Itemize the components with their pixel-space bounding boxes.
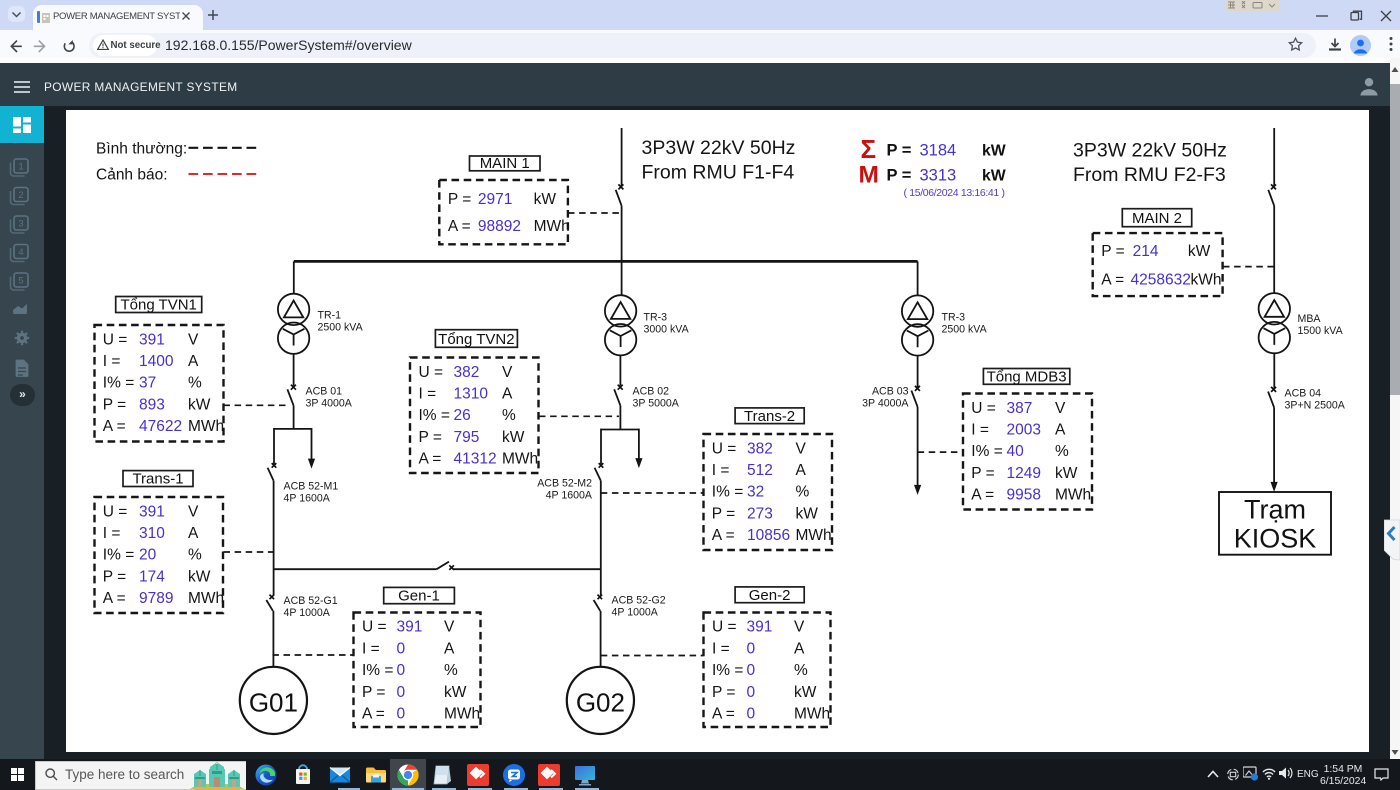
dashed link Gen-1 box bbox=[272, 654, 353, 656]
svg-text:A: A bbox=[794, 640, 805, 657]
svg-text:A: A bbox=[502, 386, 513, 403]
dashed link MAIN 1 box bbox=[568, 212, 622, 214]
svg-text:%: % bbox=[188, 547, 202, 564]
window controls bbox=[1313, 10, 1395, 22]
legend: normal dashed line bbox=[189, 147, 260, 149]
svg-text:V: V bbox=[502, 364, 513, 381]
transformer TR-1 bbox=[278, 294, 309, 354]
svg-text:A =: A = bbox=[103, 590, 126, 607]
search highlight castle bbox=[188, 762, 246, 790]
T1 spare feeder wire bbox=[311, 428, 313, 459]
svg-text:Trans-1: Trans-1 bbox=[132, 471, 183, 488]
svg-text:32: 32 bbox=[747, 484, 764, 501]
svg-text:ACB 52-M2: ACB 52-M2 bbox=[537, 478, 592, 490]
svg-text:391: 391 bbox=[139, 503, 165, 520]
svg-text:MWh: MWh bbox=[188, 590, 224, 607]
svg-text:3P3W 22kV 50Hz: 3P3W 22kV 50Hz bbox=[642, 137, 796, 159]
wire ACB 52-M1 down to gen bus and G01 bbox=[273, 481, 275, 596]
transformer MBA bbox=[1259, 293, 1290, 353]
svg-text:310: 310 bbox=[139, 525, 165, 542]
T1 left branch wire bbox=[273, 428, 275, 464]
svg-text:3P3W 22kV 50Hz: 3P3W 22kV 50Hz bbox=[1073, 140, 1227, 162]
T2 left branch wire bbox=[600, 429, 602, 464]
panel toggle flag bbox=[1384, 519, 1400, 561]
svg-text:U =: U = bbox=[103, 503, 128, 520]
svg-text:A =: A = bbox=[712, 706, 735, 723]
wire TR-3 to ACB 02 bbox=[619, 355, 621, 386]
svg-text:MBA: MBA bbox=[1298, 313, 1322, 325]
svg-text:V: V bbox=[444, 619, 455, 636]
svg-text:MAIN 2: MAIN 2 bbox=[1132, 210, 1182, 227]
label box Tong MDB3 bbox=[983, 369, 1069, 385]
svg-text:A: A bbox=[796, 462, 807, 479]
svg-text:893: 893 bbox=[139, 396, 165, 413]
breaker ACB 52-M2 contact x bbox=[599, 463, 604, 468]
svg-text:0: 0 bbox=[397, 706, 406, 723]
wire TR-3 right to ACB 03 bbox=[917, 355, 919, 387]
svg-text:2003: 2003 bbox=[1007, 422, 1041, 439]
breaker ACB 01 contact x bbox=[291, 385, 296, 390]
meter box Trans-2 bbox=[704, 434, 833, 550]
feeder 2 wire to transformer MBA bbox=[1273, 206, 1275, 293]
svg-text:U =: U = bbox=[712, 619, 737, 636]
breaker ACB 04 contact x bbox=[1271, 387, 1276, 392]
svg-text:I =: I = bbox=[103, 525, 121, 542]
svg-text:U =: U = bbox=[971, 400, 996, 417]
wire TR-1 to ACB 01 bbox=[293, 354, 295, 386]
wire ACB 03 to MDB3 feeder arrow bbox=[917, 407, 919, 486]
label box Tong TVN2 bbox=[435, 330, 517, 348]
svg-text:P =: P = bbox=[1101, 243, 1124, 260]
svg-text:MWh: MWh bbox=[534, 218, 570, 235]
svg-text:I% =: I% = bbox=[712, 484, 743, 501]
svg-text:26: 26 bbox=[454, 407, 471, 424]
wire ACB 52-G2 to G02 bbox=[600, 611, 602, 667]
wire ACB 52-G1 to G01 bbox=[272, 611, 274, 667]
dashed link Trans-2 box bbox=[601, 492, 704, 494]
svg-text:U =: U = bbox=[103, 331, 128, 348]
dashed link TVN1 box bbox=[224, 404, 291, 406]
svg-text:%: % bbox=[444, 662, 458, 679]
svg-text:4258632: 4258632 bbox=[1131, 271, 1191, 288]
svg-text:kW: kW bbox=[982, 143, 1006, 160]
svg-text:V: V bbox=[188, 503, 199, 520]
svg-text:I% =: I% = bbox=[103, 375, 134, 392]
svg-text:TR-3: TR-3 bbox=[644, 311, 668, 323]
T1 spare feeder arrow bbox=[308, 459, 315, 469]
svg-text:A =: A = bbox=[419, 451, 442, 468]
svg-text:MWh: MWh bbox=[796, 527, 832, 544]
feeder 1 wire to bus and transformer TR-3 bbox=[621, 206, 623, 296]
svg-text:I =: I = bbox=[971, 422, 989, 439]
tie switch contact x bbox=[449, 565, 454, 570]
svg-text:ACB 52-G1: ACB 52-G1 bbox=[284, 595, 338, 607]
tie switch blade bbox=[437, 562, 449, 570]
svg-text:G02: G02 bbox=[576, 688, 625, 718]
svg-text:U =: U = bbox=[712, 440, 737, 457]
svg-text:3184: 3184 bbox=[920, 142, 957, 160]
T-split 1 horizontal bbox=[274, 428, 312, 430]
svg-text:From RMU F2-F3: From RMU F2-F3 bbox=[1073, 164, 1226, 186]
svg-text:391: 391 bbox=[139, 331, 165, 348]
svg-text:MAIN 1: MAIN 1 bbox=[480, 155, 530, 172]
svg-text:ACB 03: ACB 03 bbox=[872, 385, 909, 397]
svg-text:A: A bbox=[188, 525, 199, 542]
svg-text:kW: kW bbox=[188, 396, 211, 413]
svg-text:From RMU F1-F4: From RMU F1-F4 bbox=[642, 162, 795, 184]
svg-text:40: 40 bbox=[1007, 443, 1025, 460]
svg-text:391: 391 bbox=[397, 619, 423, 636]
label box Tong TVN1 bbox=[116, 297, 202, 313]
svg-text:5: 5 bbox=[18, 276, 23, 287]
svg-text:387: 387 bbox=[1007, 400, 1033, 417]
svg-text:TR-3: TR-3 bbox=[942, 311, 966, 323]
svg-text:P =: P = bbox=[448, 191, 471, 208]
svg-text:kW: kW bbox=[502, 429, 525, 446]
svg-text:1310: 1310 bbox=[454, 386, 489, 403]
svg-text:Gen-2: Gen-2 bbox=[749, 587, 791, 604]
svg-text:4P 1000A: 4P 1000A bbox=[284, 607, 331, 619]
svg-text:%: % bbox=[796, 484, 810, 501]
capture widget overlay bbox=[1225, 0, 1280, 11]
svg-text:kW: kW bbox=[188, 568, 211, 585]
svg-text:37: 37 bbox=[139, 375, 156, 392]
svg-text:ACB 04: ACB 04 bbox=[1285, 388, 1322, 400]
svg-text:Tổng TVN1: Tổng TVN1 bbox=[120, 297, 196, 314]
svg-text:174: 174 bbox=[139, 568, 165, 585]
svg-text:98892: 98892 bbox=[478, 218, 521, 235]
svg-text:382: 382 bbox=[747, 440, 773, 457]
svg-text:U =: U = bbox=[362, 619, 387, 636]
svg-text:2500 kVA: 2500 kVA bbox=[942, 323, 988, 335]
svg-text:A =: A = bbox=[712, 527, 735, 544]
breaker MAIN 1 blade bbox=[616, 190, 622, 206]
svg-text:Cảnh báo:: Cảnh báo: bbox=[96, 167, 168, 184]
svg-text:TR-1: TR-1 bbox=[318, 310, 342, 322]
svg-text:P =: P = bbox=[103, 396, 126, 413]
svg-text:A =: A = bbox=[971, 487, 994, 504]
svg-text:P =: P = bbox=[419, 429, 442, 446]
svg-text:214: 214 bbox=[1133, 243, 1159, 260]
dashed link Trans-1 box bbox=[224, 551, 274, 553]
dashed link MDB3 box bbox=[918, 451, 963, 453]
svg-text:A =: A = bbox=[103, 418, 126, 435]
T2 spare feeder wire bbox=[638, 429, 640, 459]
label box MAIN 1 bbox=[470, 156, 541, 171]
breaker ACB 52-G2 blade bbox=[594, 600, 601, 611]
transformer TR-3 right (2500 kVA) bbox=[902, 295, 933, 355]
svg-text:A =: A = bbox=[362, 706, 385, 723]
MDB3 feeder arrow bbox=[914, 485, 921, 495]
breaker ACB 03 contact x bbox=[915, 386, 920, 391]
svg-text:512: 512 bbox=[747, 462, 773, 479]
KIOSK feeder arrow bbox=[1271, 482, 1278, 492]
sidebar menu icons bbox=[0, 143, 44, 433]
label box MAIN 2 bbox=[1122, 209, 1191, 227]
label box Gen-1 bbox=[384, 587, 455, 603]
svg-text:0: 0 bbox=[397, 684, 406, 701]
svg-text:V: V bbox=[794, 619, 805, 636]
svg-text:Trans-2: Trans-2 bbox=[744, 408, 795, 425]
breaker ACB 04 blade bbox=[1268, 392, 1274, 408]
svg-text:KIOSK: KIOSK bbox=[1234, 524, 1317, 554]
breaker ACB 02 contact x bbox=[618, 385, 623, 390]
label box Trans-2 bbox=[735, 408, 804, 424]
meter box Gen-2 bbox=[704, 613, 831, 728]
svg-text:P =: P = bbox=[362, 684, 385, 701]
svg-text:I% =: I% = bbox=[103, 547, 134, 564]
breaker ACB 52-G1 contact x bbox=[270, 595, 275, 600]
svg-text:P =: P = bbox=[712, 505, 735, 522]
svg-text:1249: 1249 bbox=[1007, 465, 1041, 482]
breaker ACB 52-M1 blade bbox=[268, 468, 274, 481]
svg-text:M: M bbox=[859, 162, 879, 189]
breaker ACB 52-G2 contact x bbox=[598, 595, 603, 600]
svg-text:0: 0 bbox=[747, 662, 756, 679]
breaker ACB 52-M2 blade bbox=[595, 468, 601, 481]
breaker MAIN 2 blade bbox=[1268, 190, 1274, 206]
tray bbox=[1206, 769, 1220, 779]
T-split 2 horizontal bbox=[601, 429, 639, 431]
incoming feeder 2 wire (top) bbox=[1273, 128, 1275, 186]
svg-text:391: 391 bbox=[747, 619, 773, 636]
label box Gen-2 bbox=[735, 587, 804, 603]
svg-text:U =: U = bbox=[419, 364, 444, 381]
svg-text:A: A bbox=[444, 640, 455, 657]
svg-text:P =: P = bbox=[971, 465, 994, 482]
svg-text:V: V bbox=[188, 331, 199, 348]
wire bus to TR-3 right bbox=[917, 261, 919, 296]
generator tie bus left segment bbox=[274, 568, 437, 570]
svg-text:I% =: I% = bbox=[712, 662, 743, 679]
svg-text:kW: kW bbox=[1188, 243, 1211, 260]
svg-text:1: 1 bbox=[18, 162, 23, 173]
svg-text:A =: A = bbox=[1101, 271, 1124, 288]
svg-text:kW: kW bbox=[1055, 465, 1078, 482]
svg-text:I =: I = bbox=[419, 386, 437, 403]
dashed link Gen-2 box bbox=[601, 655, 704, 657]
svg-text:P =: P = bbox=[887, 167, 912, 185]
svg-text:273: 273 bbox=[747, 505, 773, 522]
meter box Gen-1 bbox=[354, 613, 481, 728]
scrollbar bbox=[1390, 58, 1400, 758]
svg-text:0: 0 bbox=[747, 706, 756, 723]
svg-text:0: 0 bbox=[397, 662, 406, 679]
Tram KIOSK box bbox=[1219, 492, 1331, 555]
svg-text:382: 382 bbox=[454, 364, 480, 381]
meter box MAIN 2 bbox=[1093, 233, 1223, 296]
svg-text:3P 5000A: 3P 5000A bbox=[633, 398, 680, 410]
svg-text:I =: I = bbox=[712, 640, 730, 657]
wire ACB 04 to Tram KIOSK bbox=[1273, 407, 1275, 482]
svg-text:MWh: MWh bbox=[1055, 487, 1091, 504]
dashed link MAIN 2 box bbox=[1223, 266, 1274, 268]
legend: warning dashed line (red) bbox=[189, 173, 260, 175]
svg-text:Gen-1: Gen-1 bbox=[398, 588, 440, 605]
svg-text:G01: G01 bbox=[249, 688, 298, 718]
wire ACB 01 to T-split bbox=[293, 406, 295, 429]
svg-text:%: % bbox=[188, 375, 202, 392]
svg-text:Bình thường:: Bình thường: bbox=[96, 141, 187, 158]
svg-text:795: 795 bbox=[454, 429, 480, 446]
svg-text:3P 4000A: 3P 4000A bbox=[862, 397, 909, 409]
wire ACB 52-M2 down to gen bus and G02 bbox=[600, 481, 602, 596]
svg-text:ACB 52-M1: ACB 52-M1 bbox=[284, 481, 339, 493]
svg-text:4P 1000A: 4P 1000A bbox=[612, 607, 659, 619]
svg-text:Tổng TVN2: Tổng TVN2 bbox=[438, 331, 514, 348]
breaker ACB 03 blade bbox=[911, 391, 917, 407]
svg-text:1500 kVA: 1500 kVA bbox=[1298, 325, 1344, 337]
dashed link TVN2 box bbox=[539, 415, 619, 417]
svg-text:kW: kW bbox=[534, 191, 557, 208]
incoming feeder 1 wire (top) bbox=[621, 128, 623, 186]
svg-text:kW: kW bbox=[444, 684, 467, 701]
svg-text:ACB 02: ACB 02 bbox=[633, 386, 670, 398]
svg-text:3P+N 2500A: 3P+N 2500A bbox=[1285, 400, 1346, 412]
svg-text:2: 2 bbox=[18, 190, 23, 201]
wire ACB 02 to T-split 2 bbox=[619, 406, 621, 430]
svg-text:10856: 10856 bbox=[747, 527, 790, 544]
svg-text:2971: 2971 bbox=[478, 191, 512, 208]
meter box MAIN 1 bbox=[439, 180, 568, 244]
svg-text:41312: 41312 bbox=[454, 451, 497, 468]
svg-text:P =: P = bbox=[887, 142, 912, 160]
svg-text:0: 0 bbox=[747, 684, 756, 701]
svg-text:P =: P = bbox=[712, 684, 735, 701]
svg-text:V: V bbox=[1055, 400, 1066, 417]
svg-text:3313: 3313 bbox=[920, 167, 957, 185]
svg-text:20: 20 bbox=[139, 547, 157, 564]
svg-text:Trạm: Trạm bbox=[1244, 495, 1306, 525]
transformer TR-3 (3000 kVA) bbox=[605, 295, 636, 355]
svg-text:MWh: MWh bbox=[502, 451, 538, 468]
svg-text:2500 kVA: 2500 kVA bbox=[318, 322, 364, 334]
svg-text:( 15/06/2024 13:16:41 ): ( 15/06/2024 13:16:41 ) bbox=[904, 187, 1005, 199]
svg-text:3000 kVA: 3000 kVA bbox=[644, 323, 690, 335]
svg-text:MWh: MWh bbox=[794, 706, 830, 723]
svg-text:0: 0 bbox=[397, 640, 406, 657]
svg-text:kW: kW bbox=[982, 168, 1006, 185]
breaker MAIN 2 contact x bbox=[1271, 184, 1276, 189]
svg-text:I =: I = bbox=[103, 353, 121, 370]
svg-text:Σ: Σ bbox=[861, 134, 877, 164]
generator tie bus right segment bbox=[454, 568, 602, 570]
T2 spare feeder arrow bbox=[635, 458, 642, 468]
meter box Trans-1 bbox=[95, 497, 224, 613]
breaker ACB 02 blade bbox=[614, 389, 620, 405]
svg-text:9958: 9958 bbox=[1007, 487, 1041, 504]
svg-text:I =: I = bbox=[712, 462, 730, 479]
meter box Tong MDB3 bbox=[963, 394, 1092, 510]
svg-text:4: 4 bbox=[18, 247, 23, 258]
breaker ACB 52-G1 blade bbox=[266, 600, 273, 611]
svg-text:I =: I = bbox=[362, 640, 380, 657]
svg-text:I% =: I% = bbox=[971, 443, 1002, 460]
wire bus to TR-1 bbox=[293, 261, 295, 294]
svg-text:I% =: I% = bbox=[362, 662, 393, 679]
svg-text:ACB 52-G2: ACB 52-G2 bbox=[612, 595, 666, 607]
svg-text:%: % bbox=[794, 662, 808, 679]
breaker ACB 01 blade bbox=[287, 389, 293, 405]
svg-text:MWh: MWh bbox=[444, 706, 480, 723]
breaker MAIN 1 contact x bbox=[618, 184, 623, 189]
svg-text:Tổng MDB3: Tổng MDB3 bbox=[987, 368, 1067, 385]
meter box Tong TVN1 bbox=[95, 325, 224, 442]
svg-text:9789: 9789 bbox=[139, 590, 173, 607]
generator G01 bbox=[240, 667, 307, 734]
svg-text:1400: 1400 bbox=[139, 353, 174, 370]
svg-text:3P 4000A: 3P 4000A bbox=[306, 398, 353, 410]
svg-text:kW: kW bbox=[794, 684, 817, 701]
breaker ACB 52-M1 contact x bbox=[272, 463, 277, 468]
svg-text:MWh: MWh bbox=[188, 418, 224, 435]
svg-text:kWh: kWh bbox=[1191, 271, 1222, 288]
meter box Tong TVN2 bbox=[410, 358, 539, 474]
svg-text:47622: 47622 bbox=[139, 418, 182, 435]
svg-text:kW: kW bbox=[796, 505, 819, 522]
svg-text:I% =: I% = bbox=[419, 407, 450, 424]
svg-text:P =: P = bbox=[103, 568, 126, 585]
svg-text:A: A bbox=[188, 353, 199, 370]
svg-text:ACB 01: ACB 01 bbox=[306, 386, 343, 398]
label box Trans-1 bbox=[123, 471, 193, 487]
svg-text:4P 1600A: 4P 1600A bbox=[284, 493, 331, 505]
svg-text:%: % bbox=[1055, 443, 1069, 460]
svg-text:A: A bbox=[1055, 422, 1066, 439]
generator G02 bbox=[567, 667, 634, 734]
taskbar app icons bbox=[254, 763, 278, 787]
svg-text:4P 1600A: 4P 1600A bbox=[546, 490, 593, 502]
svg-text:3: 3 bbox=[18, 219, 23, 230]
svg-text:V: V bbox=[796, 440, 807, 457]
wire MBA to ACB 04 bbox=[1273, 353, 1275, 388]
svg-text:0: 0 bbox=[747, 640, 756, 657]
svg-text:A =: A = bbox=[448, 218, 471, 235]
svg-text:%: % bbox=[502, 407, 516, 424]
busbar bbox=[294, 260, 918, 263]
